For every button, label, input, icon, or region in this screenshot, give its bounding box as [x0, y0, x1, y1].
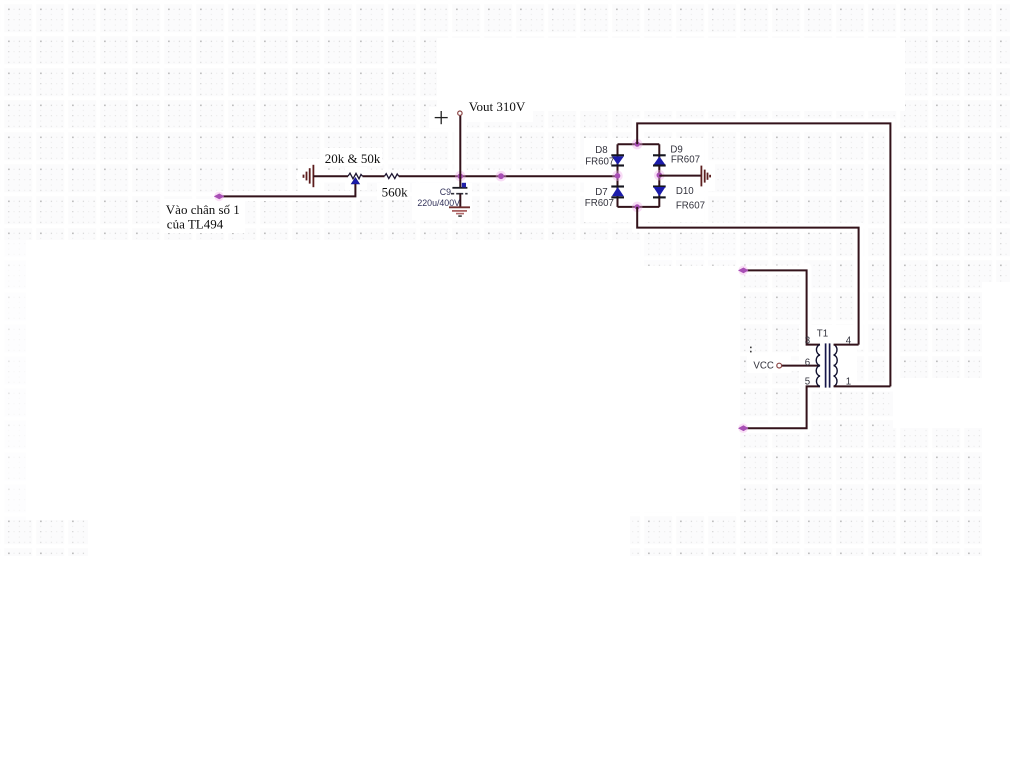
- node junction (mid wire): [496, 171, 507, 182]
- diode D7 FR607 (left bottom, pointing up): [585, 187, 624, 209]
- potentiometer wiper arrow (blue): [351, 178, 359, 184]
- ground (right analog ground, sideways): [701, 166, 710, 187]
- net arrow (to TL494 pin 1): [214, 192, 224, 202]
- svg-text:6: 6: [805, 358, 810, 369]
- wire: 560k to bridge left rail: [399, 175, 618, 177]
- wire: bridge bottom loop to transformer pin 4 side: [637, 207, 858, 345]
- svg-text:của TL494: của TL494: [167, 216, 224, 231]
- svg-text:Vout 310V: Vout 310V: [469, 99, 526, 114]
- svg-text:FR607: FR607: [585, 198, 614, 209]
- background grid regions (decorative): [0, 0, 1010, 240]
- white halo under circuit (decorative): [218, 110, 891, 428]
- phasing dots: [750, 347, 752, 349]
- resistor 560k (zigzag): [385, 174, 399, 179]
- potentiometer VR 20k & 50k (zigzag body): [348, 173, 363, 179]
- junction left mid of bridge: [612, 171, 623, 182]
- svg-text:D10: D10: [676, 186, 694, 197]
- svg-text:Vào chân số 1: Vào chân số 1: [166, 202, 240, 217]
- ground (left analog ground, sideways): [304, 165, 314, 187]
- svg-text:5: 5: [805, 377, 810, 388]
- svg-text:1: 1: [846, 377, 851, 388]
- net arrow lower left: [738, 423, 748, 433]
- pin 3 wire: [743, 270, 820, 344]
- svg-text:4: 4: [846, 336, 852, 347]
- svg-text:FR607: FR607: [671, 155, 700, 166]
- bridge rails (wires): [618, 144, 660, 207]
- svg-text:FR607: FR607: [585, 156, 614, 167]
- svg-text:VCC: VCC: [753, 360, 773, 371]
- diode D8 FR607 (left top, pointing down): [585, 145, 624, 167]
- diode D10 FR607 (right bottom, pointing down): [653, 186, 705, 211]
- junction bottom of bridge: [632, 202, 643, 213]
- junction top of bridge: [632, 139, 643, 150]
- wire: left ground to potentiometer: [313, 175, 348, 177]
- ground (below C9): [449, 206, 470, 208]
- svg-text:20k & 50k: 20k & 50k: [325, 151, 381, 166]
- terminal Vout (open circle): [458, 111, 462, 115]
- svg-text:220u/400V: 220u/400V: [417, 198, 460, 208]
- terminal VCC (open circle): [777, 363, 782, 368]
- primary winding (left): [816, 345, 820, 387]
- wire: bridge top loop to transformer pin 1 side: [637, 123, 890, 386]
- secondary winding (right): [834, 345, 838, 387]
- core: [825, 343, 827, 387]
- node junction at C9 tap: [455, 171, 466, 182]
- diode D9 FR607 (right top, pointing up): [653, 144, 700, 165]
- svg-text:FR607: FR607: [676, 200, 705, 211]
- wire: wiper down and left to TL494: [219, 184, 356, 196]
- svg-text:3: 3: [805, 336, 810, 347]
- wire: bridge right mid to ground: [659, 175, 701, 177]
- svg-text:C9: C9: [440, 187, 451, 197]
- pin 6 wire: [782, 365, 820, 367]
- net arrow upper left: [738, 266, 748, 276]
- svg-text:D7: D7: [595, 187, 607, 198]
- junction right mid of bridge: [654, 170, 665, 181]
- pin 5 wire: [743, 386, 820, 428]
- svg-text:D9: D9: [670, 144, 682, 155]
- svg-text:T1: T1: [817, 328, 828, 339]
- svg-text:D8: D8: [595, 145, 607, 156]
- pin 1 wire: [834, 385, 891, 387]
- plus polarity mark: [435, 117, 448, 119]
- pin 4 wire: [834, 344, 859, 346]
- wire: up to Vout terminal: [459, 115, 461, 176]
- wire: pot to resistor 560k: [363, 175, 385, 177]
- svg-text:560k: 560k: [382, 184, 409, 199]
- capacitor C9 220u/400V: [459, 176, 461, 187]
- transformer T1: [738, 266, 890, 433]
